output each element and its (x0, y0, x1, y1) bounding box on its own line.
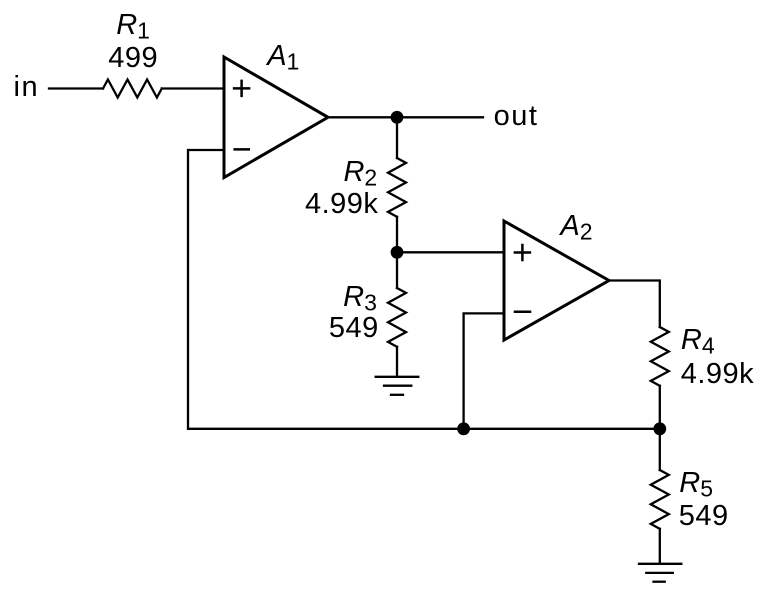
label R1 (116, 11, 150, 46)
wire R3 bottom lead (396, 347, 398, 377)
wire input lead (49, 87, 103, 89)
wire R5 bottom lead (659, 529, 661, 564)
wire A2 inverting input feedback (464, 313, 504, 428)
node A1 output junction (391, 111, 404, 124)
value R4 4.99k (681, 360, 754, 389)
ground under R3 (376, 377, 419, 395)
resistor R2 (388, 158, 406, 217)
node R4 R5 junction (653, 422, 666, 435)
op-amp A2 (504, 221, 609, 340)
op-amp A1 (224, 57, 328, 178)
node label in (14, 73, 40, 102)
label R3 (343, 283, 377, 318)
node label out (494, 102, 539, 131)
label A1 (267, 42, 299, 77)
resistor R5 (651, 470, 669, 529)
label A2 (560, 212, 592, 247)
resistor R4 (651, 327, 669, 386)
wire R5 top lead (659, 429, 661, 470)
resistor R1 (103, 80, 162, 98)
wire R1 to A1 noninverting input (162, 87, 224, 89)
value R2 4.99k (305, 190, 378, 219)
resistor R3 (388, 288, 406, 347)
label R4 (681, 326, 715, 361)
wire R2 bottom lead (396, 217, 398, 253)
label R2 (343, 158, 377, 193)
node R2 R3 junction (391, 246, 404, 259)
wire A2 output to R4 (609, 281, 660, 328)
value R5 549 (679, 502, 729, 531)
value R1 499 (108, 44, 158, 73)
wire R3 top lead (396, 252, 398, 288)
wire junction to A2 noninverting input (397, 251, 504, 253)
value R3 549 (329, 314, 379, 343)
ground under R5 (639, 564, 681, 582)
label R5 (679, 469, 713, 504)
wire R4 bottom lead (659, 386, 661, 429)
wire A1 feedback to bottom rail (188, 150, 660, 429)
wire A1 output (328, 116, 484, 118)
node feedback rail junction (457, 422, 470, 435)
wire R2 top lead (396, 117, 398, 158)
